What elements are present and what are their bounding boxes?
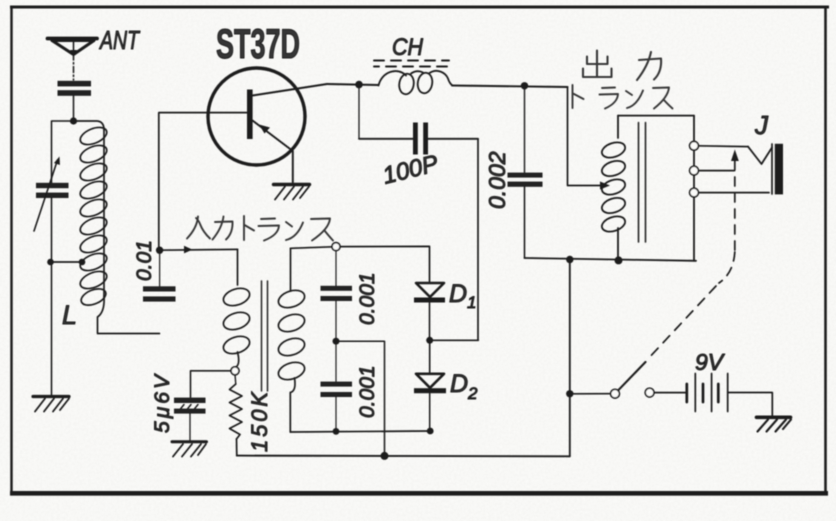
wire rail right of CH — [452, 86, 568, 88]
node rail-switch — [566, 256, 573, 263]
svg-text:L: L — [62, 300, 77, 330]
capacitor 5u6V — [174, 398, 206, 442]
node cap mid — [333, 338, 340, 345]
svg-text:ANT: ANT — [99, 25, 141, 55]
node bottom rail — [381, 452, 389, 460]
node D2 bottom — [427, 428, 434, 435]
wire switch column — [569, 260, 571, 457]
svg-text:0.001: 0.001 — [356, 365, 379, 418]
wire base of Q1 — [159, 113, 248, 248]
label output transformer (shutsuryoku toransu) — [583, 51, 661, 81]
centre tap arrow — [600, 182, 610, 190]
svg-text:1: 1 — [467, 293, 476, 312]
capacitor 0.001 lower — [321, 344, 353, 431]
wire to variable capacitor — [52, 121, 74, 183]
wires to jack — [698, 145, 748, 148]
svg-text:D: D — [450, 370, 468, 398]
wire bottom rail — [237, 455, 570, 458]
ground (left) — [33, 397, 69, 412]
antenna ANT — [48, 39, 98, 81]
T2 secondary terminals (open) — [690, 141, 699, 150]
node collector junction — [355, 81, 363, 89]
svg-text:D: D — [449, 280, 467, 308]
wire diode mid to 100P column — [430, 339, 479, 341]
mechanical link dashed — [647, 150, 739, 361]
capacitor 0.002 — [508, 82, 543, 258]
diode D1 — [336, 246, 445, 337]
svg-text:100P: 100P — [380, 150, 441, 190]
wire cap mid to bottom rail — [336, 341, 385, 456]
svg-text:5μ6V: 5μ6V — [151, 373, 174, 433]
switch SW — [566, 362, 686, 398]
capacitor 0.001 upper — [321, 251, 353, 338]
wire rail to output transformer centre tap — [568, 87, 601, 186]
node antenna junction — [70, 117, 77, 124]
node detector top (open) — [332, 243, 340, 251]
svg-text:0.001: 0.001 — [356, 272, 379, 325]
input transformer T1 — [221, 247, 332, 432]
node cap2 bottom — [333, 428, 340, 435]
coil tap wire — [47, 259, 85, 266]
transistor Q1 ST37D — [208, 68, 327, 183]
wire rail y260 — [525, 258, 697, 261]
jack J — [748, 144, 783, 195]
battery 9V — [687, 374, 773, 417]
capacitor 100P — [359, 85, 478, 155]
wire varcap down to ground — [51, 198, 53, 395]
node rail-primary — [615, 256, 623, 264]
diode D2 — [414, 343, 446, 431]
svg-text:150K: 150K — [247, 391, 272, 452]
ground (5u cap) — [172, 442, 207, 457]
svg-text:2: 2 — [467, 384, 478, 403]
svg-text:CH: CH — [392, 34, 424, 61]
capacitor 0.01 — [143, 247, 176, 302]
label input transformer (nyuuryoku toransu) — [187, 216, 333, 241]
node T1 primary bottom (open) — [231, 367, 239, 375]
svg-text:J: J — [754, 110, 769, 140]
output transformer T2 — [600, 116, 694, 261]
wire T1 bottom to 5u cap — [191, 371, 232, 398]
variable capacitor VC — [34, 157, 69, 232]
svg-text:ST37D: ST37D — [216, 20, 300, 67]
node diode mid — [426, 337, 433, 344]
svg-text:0.01: 0.01 — [133, 240, 156, 281]
wire collector rail — [327, 84, 378, 85]
ground (emitter) — [274, 185, 310, 200]
choke CH — [374, 61, 453, 96]
svg-text:9V: 9V — [695, 349, 726, 375]
wire base node to input transformer — [160, 246, 238, 254]
ground (battery) — [757, 417, 792, 431]
wire 100P node down to diode node — [477, 139, 479, 340]
svg-text:0.002: 0.002 — [484, 151, 510, 209]
coil L — [74, 121, 160, 334]
antenna series capacitor — [58, 81, 92, 118]
wire rail y431 — [290, 431, 430, 432]
resistor 150K — [230, 375, 243, 456]
